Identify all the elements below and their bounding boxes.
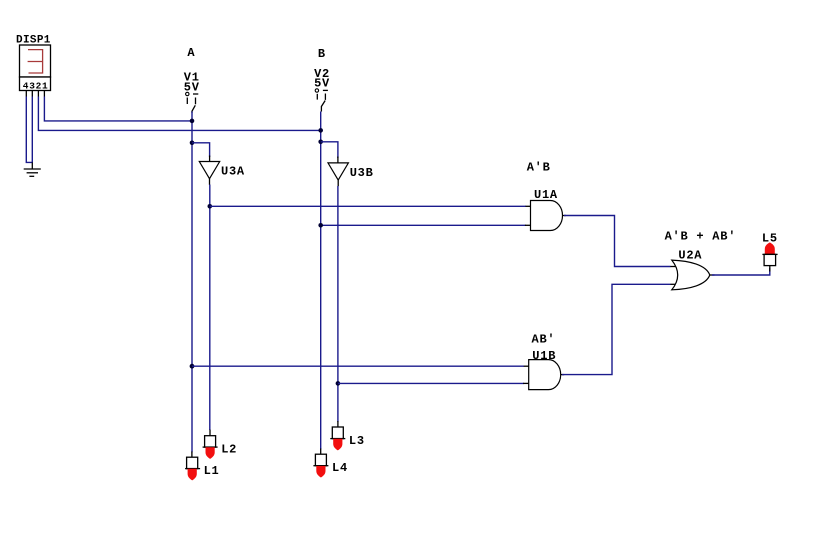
svg-text:4321: 4321 — [23, 80, 49, 91]
wire A' to U1A top input — [210, 205, 526, 207]
throw terminal circle — [315, 89, 318, 92]
junction B' / U1B input — [336, 381, 341, 386]
display body — [20, 45, 51, 77]
wire DISP pin2 to node B line — [38, 97, 320, 131]
pin stub 2 — [37, 91, 39, 97]
wire node B to U1A bottom input — [321, 224, 526, 226]
junction node A / pin1 wire — [190, 119, 195, 124]
svg-text:L4: L4 — [332, 461, 348, 475]
svg-text:L3: L3 — [349, 434, 365, 448]
switch V1 — [184, 71, 200, 114]
dashed pole left — [316, 94, 318, 100]
body box — [205, 436, 216, 447]
terminal stub — [191, 452, 193, 458]
svg-text:A: A — [187, 46, 195, 60]
and-gate U1B — [523, 349, 564, 390]
svg-text:B: B — [318, 47, 326, 61]
segment glyph 3 — [28, 50, 43, 73]
switch arm — [321, 101, 325, 112]
input stub top — [524, 365, 529, 367]
dashed pole right — [195, 98, 197, 105]
wire U1B output to U2A — [562, 284, 671, 374]
red dome — [765, 242, 775, 254]
and-gate U1A — [525, 188, 566, 231]
svg-text:AB': AB' — [532, 333, 556, 347]
or-gate U2A — [670, 249, 714, 290]
dashed pole left — [186, 98, 188, 105]
red dome — [188, 469, 197, 481]
output stub — [710, 274, 715, 276]
wire node A vertical — [191, 112, 193, 453]
lamp L2 — [203, 430, 238, 459]
junction node A / inverter branch — [190, 141, 195, 146]
body box — [764, 254, 776, 265]
triangle body — [328, 163, 348, 180]
output stub — [561, 374, 565, 376]
svg-text:U1A: U1A — [534, 188, 558, 202]
collar — [330, 438, 345, 440]
pin stub 1 — [43, 91, 45, 97]
pin stub 4 — [25, 91, 27, 97]
pin stub 3 — [31, 91, 33, 97]
svg-text:U3A: U3A — [221, 164, 245, 178]
input stub — [209, 156, 211, 162]
junction A' / U1A input — [208, 204, 213, 209]
terminal stub — [337, 421, 339, 427]
output stub — [563, 215, 567, 217]
switch arm — [192, 105, 195, 113]
terminal stub — [209, 430, 211, 436]
ground — [24, 162, 41, 176]
terminal stub — [769, 266, 771, 272]
output stub — [337, 180, 339, 186]
triangle body — [199, 162, 219, 179]
lamp L3 — [330, 421, 365, 450]
input stub — [337, 157, 339, 163]
collar — [203, 446, 218, 448]
lamp L4 — [313, 449, 348, 478]
collar — [313, 465, 328, 467]
svg-text:A'B + AB': A'B + AB' — [665, 229, 737, 243]
wire node A to U1B top input — [192, 365, 524, 367]
svg-text:L2: L2 — [221, 443, 237, 457]
junction node B / pin2 wire — [318, 128, 323, 133]
pin-number box — [20, 77, 51, 91]
wire U3B output (B') vertical — [337, 186, 339, 422]
junction node B / U1A input — [318, 223, 323, 228]
wire U1A output to U2A — [564, 216, 671, 267]
collar — [185, 468, 200, 470]
wire DISP pin1 to node A line — [44, 97, 192, 121]
terminal stub — [320, 449, 322, 455]
wire B' to U1B bottom input — [338, 382, 524, 384]
red dome — [333, 439, 342, 451]
input stub bottom — [525, 224, 531, 226]
throw terminal circle — [186, 92, 189, 95]
lamp L5 — [762, 232, 778, 272]
body box — [187, 457, 198, 468]
throw terminal dash — [193, 93, 198, 95]
red dome — [316, 466, 325, 478]
inverter U3B — [328, 157, 374, 187]
wire node A to U3A input — [192, 143, 210, 157]
body box — [315, 454, 326, 466]
dashed pole right — [324, 94, 326, 100]
svg-text:U3B: U3B — [350, 166, 374, 180]
wire U2A output to lamp L5 — [712, 268, 770, 275]
svg-text:L1: L1 — [204, 464, 220, 478]
wire DISP pin3 down to ground — [31, 97, 33, 163]
input stub top — [670, 266, 676, 268]
wire U3A output (A') vertical — [209, 185, 211, 431]
throw terminal dash — [323, 89, 328, 91]
gate body — [529, 360, 561, 390]
red dome — [206, 447, 215, 459]
junction node B / inverter branch — [318, 140, 323, 145]
junction node A / U1B input — [190, 364, 195, 369]
lamp L1 — [185, 452, 219, 481]
wire node B to U3B input — [321, 142, 338, 158]
inverter U3A — [199, 156, 245, 185]
collar — [762, 253, 777, 255]
svg-text:A'B: A'B — [527, 161, 551, 175]
body box — [332, 427, 343, 439]
gate body — [672, 260, 710, 290]
input stub top — [526, 205, 531, 207]
output stub — [209, 179, 211, 185]
wire DISP pin4 down — [26, 97, 32, 163]
display DISP1 — [16, 34, 51, 96]
wire node B vertical — [320, 112, 322, 450]
input stub bottom — [523, 382, 529, 384]
switch V2 — [314, 67, 330, 111]
input stub bottom — [670, 283, 676, 285]
gate body — [531, 201, 563, 231]
